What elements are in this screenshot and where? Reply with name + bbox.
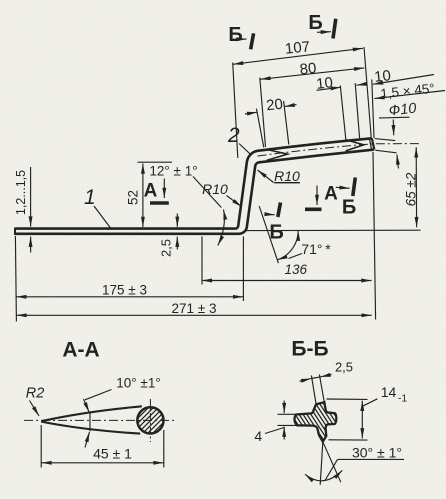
part 1 flat bar + S-bend + arm : top surface outline [15,138,372,228]
horizontal reference line right of bar [246,229,421,231]
52 top reference line [138,161,173,163]
2,5 arrows [300,379,312,382]
14 ext bottom [329,439,368,441]
R10 top bend leader [258,170,274,183]
30 deg leader [338,458,405,460]
cross section outline hatched [258,366,371,478]
ext line 107 left [233,63,238,159]
section mark A left arrow [163,179,165,199]
phi10 underline shelf [379,116,410,119]
bar left end cap [14,228,16,235]
arm tip end face [372,138,374,149]
ext line 20 left [256,109,263,148]
30 deg V left leg [320,442,323,485]
30 deg V right leg [323,442,341,482]
chamfer leader 1.5x45 [374,91,445,99]
10 deg lower arrow [85,432,90,448]
ext line tip vertical long [373,152,376,320]
tip bottom edge extension [375,150,396,153]
section mark A right arrow [316,186,318,206]
section mark B right arrow [336,187,350,188]
fork mark on arm near tip [345,140,364,151]
71 deg angle arc [277,231,298,260]
dimension 271 line [16,314,371,316]
4 ext top [278,413,297,415]
ext line chamfer [364,47,371,137]
thickness dim arrows left (1,2...1,5) [30,167,32,227]
ext line left end of bar [15,236,16,322]
fork mark on arm near bend [266,149,287,160]
section mark B top-right stroke [333,19,336,39]
label 1 leader [94,206,111,228]
ext line 20 right [284,101,289,145]
section mark B right stroke [353,178,356,197]
section mark A left bar [150,201,169,205]
4 arrows [283,401,285,414]
71 deg leader [289,254,303,259]
phi10 upper arrow [392,120,394,136]
4 ext bottom [278,424,297,426]
dimension 136 line [202,280,372,282]
dimension 65 line [415,147,417,227]
ext line near tip 1 [340,86,346,140]
circle hatched [128,394,185,445]
phi10 lower arrow [397,154,399,168]
2,5 dim arrows at bar [176,214,178,227]
10 deg upper arrow [84,399,90,412]
2,5 ext right [319,375,324,402]
arm centerline dash-dot [258,144,421,156]
14 leader [363,399,377,406]
label 2 leader [239,144,251,155]
wedge bottom line [41,422,140,434]
R2 leader [30,401,40,417]
4 leader [265,428,284,434]
dimension 10 first arrows [317,87,342,90]
A-A vertical centerline [149,399,151,442]
dimension 175 line [16,296,243,298]
section mark B top-left arrow [234,38,247,40]
12 deg leader [193,177,221,208]
12 deg arc with arrows [218,210,225,246]
2,5 dim line [311,377,320,379]
2,5 ext left [311,376,316,404]
dimension 20 arrows outside [245,112,257,114]
dimension 10 second arrow [373,75,434,85]
71 deg slant extension line [259,206,278,263]
section mark B mid stroke [278,203,281,218]
30 deg arc [305,470,342,480]
ext line 175 right [242,237,244,302]
dimension 52 line [142,164,144,228]
dimension 14 line [361,401,363,439]
10 deg dim connector [89,413,91,431]
14 ext top [327,398,368,400]
section mark A right bar [305,208,322,212]
section mark B mid arrow [266,213,275,216]
ext line near tip 2 [355,83,359,138]
R10 bottom bend leader [227,196,242,207]
ext 45 left [40,425,42,468]
dimension 80 line [260,68,364,79]
dimension 107 line [233,48,363,64]
ext line 80/20 left [260,78,266,148]
part bottom surface outline [15,150,374,234]
ext line tip face [372,80,374,139]
dimension 45 line [41,462,163,464]
A-A horizontal centerline [24,419,176,421]
section mark B top-left stroke [251,33,254,49]
tip top edge extension [375,139,395,141]
ext 45 right [163,430,165,468]
10 deg leader [85,390,112,400]
wedge top line [41,406,142,421]
arm tip chamfer line [369,138,371,149]
section mark B top-right arrow [317,31,331,34]
ext line 136 left [201,237,203,285]
